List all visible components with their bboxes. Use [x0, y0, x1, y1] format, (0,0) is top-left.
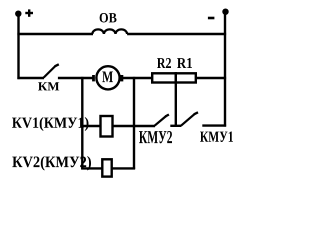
resistor R1 [176, 73, 196, 82]
contact KMU2 blade [155, 115, 169, 126]
terminal - (negative supply dot) [222, 9, 228, 15]
label M [102, 72, 113, 83]
wire right branch vertical [133, 77, 135, 169]
motor M armature circle [96, 66, 119, 89]
label - [208, 17, 215, 20]
node fixed contact bar of KMU2/KMU1 [170, 125, 181, 127]
terminal + (positive supply dot) [15, 11, 21, 17]
label KV2(KMU2) [12, 156, 91, 171]
label R1 [177, 58, 192, 68]
resistor R2 [152, 73, 176, 82]
label KMU2 [139, 131, 172, 143]
wire KV1 coil to KMU2 contact [113, 125, 156, 127]
wire KV2 coil to right branch [111, 167, 135, 169]
wire KMU1 to right rail [202, 124, 226, 126]
wire motor to R2 [123, 77, 153, 79]
inductor OB (field winding) [92, 29, 127, 34]
contact KM blade [44, 64, 59, 77]
label + [25, 9, 33, 16]
wire KV2 row left [81, 167, 102, 169]
label KM [38, 82, 59, 90]
label R2 [157, 58, 171, 68]
label OB [100, 13, 117, 23]
wire from R2/R1 junction down [175, 83, 177, 126]
contact KM fixed side wire [17, 77, 44, 79]
wire right drop from - terminal down to KMU1 contact [224, 11, 226, 127]
wire R1 to right rail [196, 77, 227, 79]
label KMU1 [200, 132, 233, 143]
wire KM to motor [58, 77, 93, 79]
wire left drop from + terminal down to KM contact [17, 13, 19, 79]
wire top rail left segment [17, 33, 93, 35]
contact KMU1 blade [181, 112, 198, 125]
motor M brushes [94, 75, 122, 81]
relay coil KV2 [102, 159, 111, 176]
label KV1(KMU1) [12, 117, 89, 131]
wire top rail right segment [127, 33, 226, 35]
relay coil KV1 [101, 116, 113, 137]
wire left relay branch vertical [81, 77, 83, 169]
wire relay row to KV1 coil [81, 125, 101, 127]
